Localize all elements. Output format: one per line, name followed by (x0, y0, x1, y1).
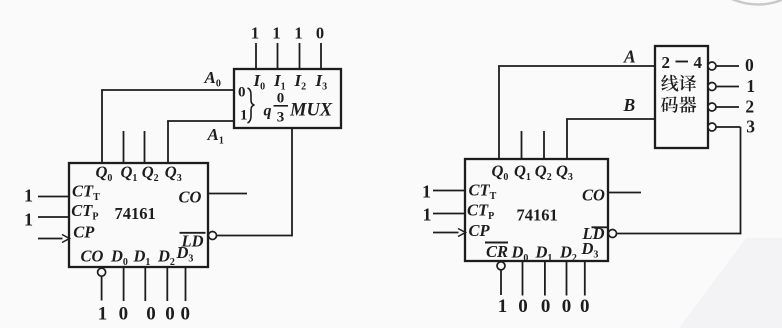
svg-text:0: 0 (146, 304, 156, 325)
U1 CR pin bubble (98, 268, 106, 276)
wire D0 pin (123, 267, 125, 301)
U4 label dash (676, 61, 689, 63)
svg-text:CR: CR (486, 242, 508, 261)
U4 label XianYi (line-decoder chinese row 1) (661, 75, 696, 92)
wire U3 D0 pin (522, 261, 524, 296)
wire CO output stub (208, 193, 247, 195)
MUX U2 box (234, 69, 341, 128)
U1 CP edge-trigger arrowhead (62, 235, 70, 243)
U2 select brace (248, 88, 255, 123)
svg-text:1: 1 (272, 24, 280, 43)
U4 output 1 bubble (708, 83, 716, 91)
wire node B horizontal (566, 118, 655, 120)
U3 CR pin bubble (497, 262, 505, 270)
svg-text:0: 0 (119, 304, 129, 325)
svg-text:74161: 74161 (517, 206, 558, 225)
svg-text:1: 1 (746, 76, 755, 96)
wire CT_T input (38, 196, 69, 198)
wire D1 pin (144, 267, 146, 301)
wire LD to MUX output (217, 235, 292, 237)
watermark circle arc top-right (694, 0, 782, 5)
wire U3 Q2 stub (543, 131, 545, 159)
svg-text:1: 1 (498, 296, 508, 317)
wire CR pin down (101, 277, 103, 301)
U3 LD overline (592, 226, 608, 228)
wire A0 horizontal (101, 89, 234, 91)
wire I2 input (299, 43, 301, 69)
svg-text:0: 0 (745, 55, 754, 75)
wire output 1 (716, 86, 739, 88)
svg-text:3: 3 (277, 110, 285, 126)
svg-text:1: 1 (98, 304, 108, 325)
svg-text:CO: CO (179, 188, 202, 207)
wire output 3 (716, 126, 741, 128)
svg-text:0: 0 (541, 296, 551, 317)
wire A1 horizontal (167, 120, 234, 122)
svg-text:0: 0 (316, 24, 324, 43)
page fold shading bottom-right (679, 238, 782, 328)
wire Q0 up (101, 90, 103, 163)
svg-text:1: 1 (294, 24, 302, 43)
svg-text:CO: CO (582, 186, 605, 205)
wire D3 pin (185, 267, 187, 301)
wire I3 input (320, 43, 322, 69)
svg-text:A: A (623, 47, 636, 67)
decoder U4 2-4 box (655, 46, 708, 148)
wire D2 pin (166, 267, 168, 301)
U4 label MaQi (decoder chinese row 2) (661, 96, 696, 113)
wire U3 CP input (433, 232, 459, 234)
wire output 0 (716, 65, 739, 67)
wire U3 CT_P input (433, 213, 465, 215)
counter U3 74161 box (465, 159, 608, 261)
wire U3 CT_T input (433, 190, 465, 192)
svg-text:2: 2 (662, 53, 671, 72)
svg-text:1: 1 (251, 24, 259, 43)
wire U3 Q3 up (566, 119, 568, 159)
wire MUX output vertical (291, 128, 293, 236)
svg-text:3: 3 (746, 116, 755, 136)
svg-text:2: 2 (745, 97, 754, 117)
svg-text:0: 0 (238, 85, 246, 101)
counter U1 74161 box (69, 163, 208, 267)
wire output 2 (716, 106, 739, 108)
wire U3 CO stub (608, 192, 641, 194)
wire U3 Q1 stub (521, 131, 523, 159)
svg-text:0: 0 (518, 296, 528, 317)
svg-text:0: 0 (277, 91, 285, 107)
wire Q1 stub (123, 131, 125, 163)
svg-text:0: 0 (180, 304, 190, 325)
svg-text:CO: CO (81, 247, 104, 266)
svg-text:1: 1 (422, 182, 431, 202)
wire I1 input (277, 43, 279, 69)
U1 LD pin bubble (209, 232, 217, 240)
svg-text:1: 1 (24, 210, 33, 230)
U4 output 3 bubble (708, 123, 716, 131)
svg-text:74161: 74161 (115, 204, 156, 223)
wire U3 Q0 up (498, 66, 500, 159)
svg-text:q: q (264, 103, 272, 120)
wire CT_P input (38, 216, 69, 218)
wire CP input (38, 238, 63, 240)
svg-text:4: 4 (694, 53, 703, 72)
svg-text:1: 1 (423, 205, 432, 225)
svg-text:CP: CP (469, 221, 491, 240)
svg-text:MUX: MUX (289, 101, 333, 121)
U3 LD pin bubble (609, 230, 617, 238)
svg-text:0: 0 (562, 296, 572, 317)
wire Q2 stub (144, 131, 146, 163)
wire U3 D1 pin (544, 261, 546, 296)
wire U3 CR down (500, 270, 502, 295)
U4 output 2 bubble (708, 103, 716, 111)
wire decoder output3 vertical (740, 127, 742, 234)
wire U3 D2 pin (566, 261, 568, 296)
wire node A horizontal (498, 65, 655, 67)
svg-text:B: B (623, 95, 636, 115)
svg-text:1: 1 (24, 186, 33, 206)
svg-text:0: 0 (165, 304, 175, 325)
wire U3 D3 pin (584, 261, 586, 296)
wire Q3 up (167, 121, 169, 163)
svg-text:CP: CP (73, 223, 95, 242)
svg-text:1: 1 (240, 108, 248, 124)
U4 output 0 bubble (708, 62, 716, 70)
U3 CR overline (485, 242, 508, 244)
svg-text:0: 0 (580, 296, 590, 317)
U1 LD overline (180, 232, 206, 234)
wire I0 input (255, 43, 257, 69)
wire U3 LD to decoder output 3 (617, 233, 741, 235)
U3 CP edge-trigger arrowhead (458, 229, 466, 237)
U2 fraction bar (274, 105, 289, 107)
